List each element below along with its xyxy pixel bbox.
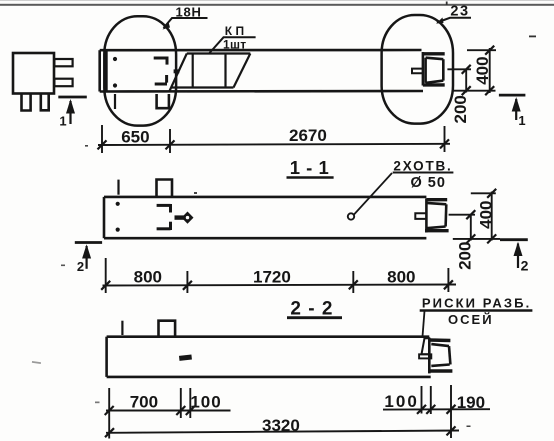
svg-text:200: 200	[451, 95, 470, 123]
end view leg 1	[22, 94, 31, 111]
svg-text:2: 2	[77, 259, 84, 274]
square protrusion below beam (plan)	[157, 94, 169, 108]
anchor arrow symbol (1-1)	[175, 215, 185, 219]
svg-text:1 - 1: 1 - 1	[290, 157, 330, 178]
svg-text:23: 23	[450, 4, 469, 20]
svg-text:18Н: 18Н	[175, 5, 201, 20]
beam outline (section 2-2)	[107, 337, 431, 377]
riska wedge at right end (2-2)	[422, 338, 430, 354]
dim 400 (plan right)	[467, 46, 496, 95]
section mark 1 (right)	[499, 95, 526, 128]
end view leg 2	[41, 94, 49, 111]
label RISKI leader	[423, 311, 425, 337]
beam right end cap (2-2)	[429, 340, 452, 371]
small tab at right end (1-1)	[415, 213, 426, 219]
scan noise speck 7	[32, 361, 41, 364]
scan noise speck 4	[467, 426, 471, 428]
dim line 700/100 (2-2 bottom left)	[105, 388, 231, 439]
embed dots (plan)	[113, 57, 117, 61]
svg-text:400: 400	[477, 201, 496, 229]
console parallelogram (KP)	[170, 54, 251, 92]
scan border top	[0, 4, 554, 6]
label 23 leader	[437, 18, 471, 23]
scan noise speck 6	[61, 265, 65, 267]
small tab at right end (plan)	[412, 69, 423, 74]
svg-text:400: 400	[473, 56, 492, 84]
svg-text:1шт: 1шт	[223, 38, 246, 52]
dim 200 (plan right)	[447, 65, 495, 95]
label 2xOTV leader	[354, 173, 392, 215]
label 2xOTV underline	[393, 172, 454, 174]
svg-text:800: 800	[387, 268, 415, 287]
scan noise speck 2	[85, 145, 88, 147]
scan noise speck 1	[529, 36, 536, 38]
beam right end cap (plan)	[423, 52, 445, 86]
svg-text:800: 800	[134, 268, 162, 287]
dim line 3320 (2-2 bottom)	[105, 426, 459, 437]
svg-text:КП: КП	[225, 24, 248, 38]
label 18H leader	[164, 18, 208, 28]
dim 200 (1-1 right)	[449, 210, 500, 243]
embed dots (1-1)	[116, 202, 120, 206]
label KP leader	[210, 37, 256, 53]
section mark 2 (1-1 left)	[75, 243, 102, 275]
dim 400 (1-1 right)	[471, 189, 496, 244]
svg-text:2: 2	[521, 258, 529, 274]
svg-text:2670: 2670	[289, 126, 327, 145]
hole circle (1-1)	[348, 213, 354, 219]
svg-text:1: 1	[518, 113, 525, 128]
embedded bracket mark (1-1)	[157, 204, 171, 230]
section mark 2 (1-1 right)	[500, 240, 529, 274]
svg-text:1720: 1720	[253, 268, 291, 287]
embedded bracket mark (plan)	[154, 57, 167, 85]
svg-text:1: 1	[59, 114, 66, 129]
section mark 1 (left)	[58, 97, 87, 129]
scan noise speck 8	[95, 402, 100, 404]
label RISKI underline	[420, 309, 533, 312]
svg-text:2ХОТВ.: 2ХОТВ.	[393, 159, 452, 174]
tick below beam (plan)	[114, 94, 116, 109]
scan noise speck 5	[446, 2, 448, 6]
svg-text:ОСЕЙ: ОСЕЙ	[448, 312, 494, 327]
tick above beam (1-1)	[117, 180, 119, 195]
end view square (left small view)	[13, 53, 54, 94]
scan noise speck 3	[194, 192, 197, 194]
filled mark inside beam (2-2)	[179, 355, 192, 361]
dim line 100/190 (2-2 bottom right)	[383, 385, 490, 438]
svg-text:700: 700	[130, 392, 158, 411]
label 23 leader arrowhead	[436, 18, 444, 24]
end view tab 2	[54, 79, 72, 87]
svg-text:РИСКИ РАЗБ.: РИСКИ РАЗБ.	[422, 296, 531, 311]
dim line 800/1720/800 (1-1 bottom)	[101, 258, 456, 293]
svg-text:3320: 3320	[262, 416, 300, 435]
title 2-2 underline	[287, 316, 342, 319]
dim line 650 / 2670 (plan bottom)	[98, 125, 451, 153]
tick above beam (2-2)	[121, 321, 123, 335]
beam outline (section 1-1)	[104, 197, 426, 238]
svg-text:200: 200	[456, 242, 475, 270]
beam outline (plan view)	[100, 50, 423, 92]
detail ellipse left (18H)	[104, 16, 176, 125]
small filled square (plan bracket)	[174, 69, 180, 73]
svg-text:Ø 50: Ø 50	[410, 175, 445, 191]
svg-text:100: 100	[384, 392, 418, 411]
top protrusion (2-2)	[159, 321, 176, 337]
label 18H leader arrowhead	[163, 22, 171, 30]
svg-text:190: 190	[457, 393, 485, 412]
beam right end cap (1-1)	[425, 199, 449, 233]
end view tab 1	[54, 59, 72, 66]
svg-text:650: 650	[121, 128, 149, 147]
title 1-1 underline	[287, 176, 334, 179]
svg-text:100: 100	[190, 392, 221, 411]
riska bar (2-2)	[419, 354, 431, 358]
detail oval right (23)	[382, 15, 453, 124]
top protrusion (1-1)	[157, 180, 173, 197]
